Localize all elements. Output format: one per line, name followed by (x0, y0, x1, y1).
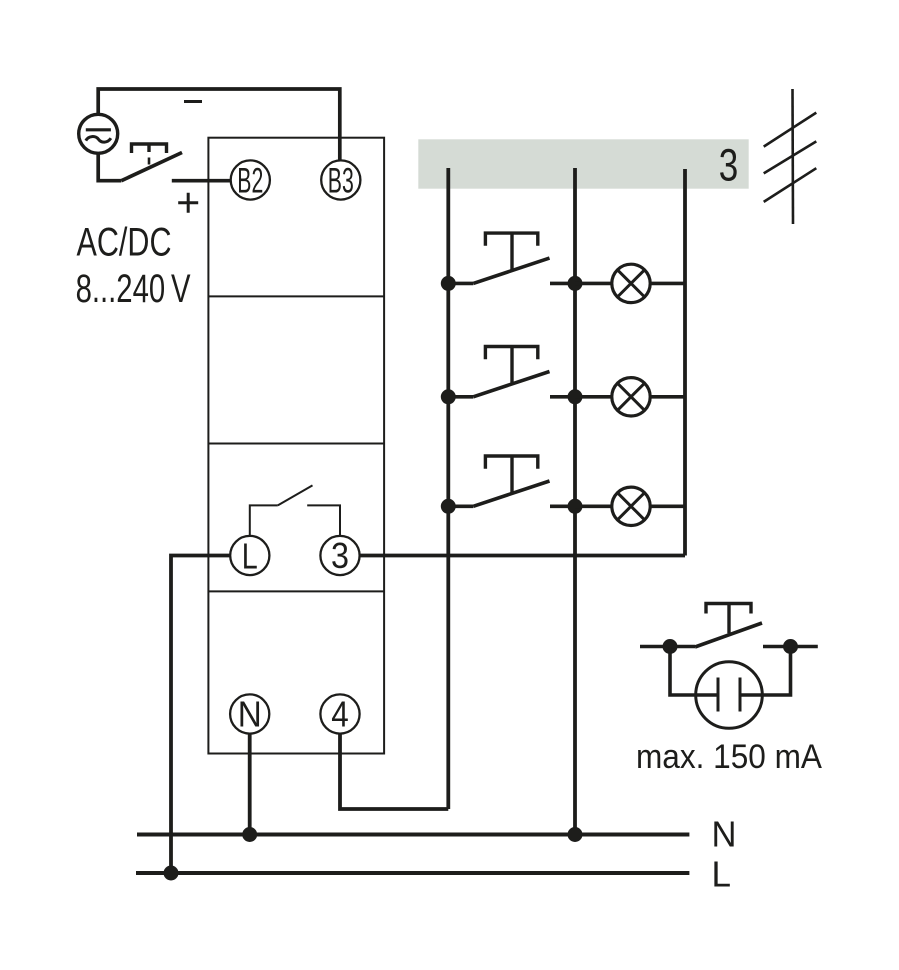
terminal L (230, 536, 269, 575)
cable hatch marks (3-conductor symbol) (764, 89, 817, 224)
lamp E2 (575, 378, 685, 416)
wire: push-button column vertical (446, 168, 450, 809)
terminal N (230, 694, 269, 733)
plus polarity label (178, 193, 198, 213)
legend fixed contact lead (763, 645, 818, 649)
terminal B2 (231, 160, 270, 199)
legend glow lamp circle (696, 662, 763, 729)
push button S1 (448, 233, 575, 283)
device outline rectangle (208, 138, 384, 754)
relay contact right stub to terminal 3 (307, 505, 340, 536)
svg-text:3: 3 (719, 140, 739, 191)
junction dot L wire on L line (164, 866, 179, 881)
divider line 2 (208, 443, 384, 445)
AC/DC supply source symbol (79, 114, 118, 153)
wire: source bottom to power switch (98, 153, 121, 181)
terminal 4 (320, 694, 359, 733)
legend push button blade stub (670, 645, 695, 649)
wire: source top to B3 (98, 89, 340, 161)
legend capacitor plate right (739, 678, 742, 712)
junction dot S1 right (568, 276, 583, 291)
power switch actuator dash (148, 158, 151, 165)
junction dot S3 left (441, 499, 456, 514)
divider line 1 (208, 295, 384, 297)
push button S2 (448, 347, 575, 397)
svg-text:B3: B3 (328, 161, 354, 201)
wire: terminal L to phase line (171, 556, 230, 874)
legend junction dot left (663, 639, 678, 654)
svg-text:L: L (712, 853, 732, 894)
relay contact blade (278, 485, 313, 505)
junction dot S2 left (441, 389, 456, 404)
legend push button blade (695, 623, 762, 647)
svg-text:AC/DC: AC/DC (77, 221, 172, 265)
divider line 3 (208, 590, 384, 592)
bus bar (net 3, shaded) (418, 139, 748, 188)
wire: terminal N down to N line (248, 734, 252, 835)
legend actuator bracket (706, 604, 751, 614)
terminal B3 (321, 160, 360, 199)
wire: power switch to B2 (172, 179, 231, 183)
svg-text:4: 4 (331, 694, 349, 735)
legend actuator stem (727, 604, 730, 634)
legend lamp left lead (670, 647, 718, 696)
terminal 3 (320, 536, 359, 575)
legend capacitor plate left (717, 678, 720, 712)
minus polarity label (184, 100, 202, 103)
power switch blade (121, 153, 182, 181)
svg-text:3: 3 (331, 535, 349, 576)
lamp E1 (575, 264, 685, 302)
svg-text:8...240 V: 8...240 V (76, 267, 191, 311)
wire: terminal 3 to lamp return line (360, 554, 685, 558)
push button S3 (448, 456, 575, 506)
junction dot lamp column on N line (568, 827, 583, 842)
wire: terminal 4 to push-button column (340, 734, 448, 809)
illuminated push button legend: left lead (640, 645, 670, 649)
svg-text:B2: B2 (237, 161, 263, 201)
legend lamp right lead (740, 647, 791, 696)
junction dot S1 left (441, 276, 456, 291)
N line (137, 833, 689, 837)
svg-text:L: L (242, 536, 258, 577)
relay contact left stub from L (250, 505, 278, 536)
power switch actuator stem (147, 144, 150, 152)
lamp E3 (575, 487, 685, 525)
svg-text:N: N (712, 814, 737, 855)
L line (136, 871, 689, 875)
power switch actuator bracket (132, 144, 167, 153)
junction dot S3 right (568, 499, 583, 514)
svg-text:max. 150 mA: max. 150 mA (636, 738, 823, 776)
svg-text:N: N (238, 694, 262, 735)
wire: lamp return vertical (683, 169, 687, 556)
legend junction dot right (783, 639, 798, 654)
wire: lamp column vertical (573, 168, 577, 835)
junction dot S2 right (568, 389, 583, 404)
junction dot N wire on N line (242, 827, 257, 842)
